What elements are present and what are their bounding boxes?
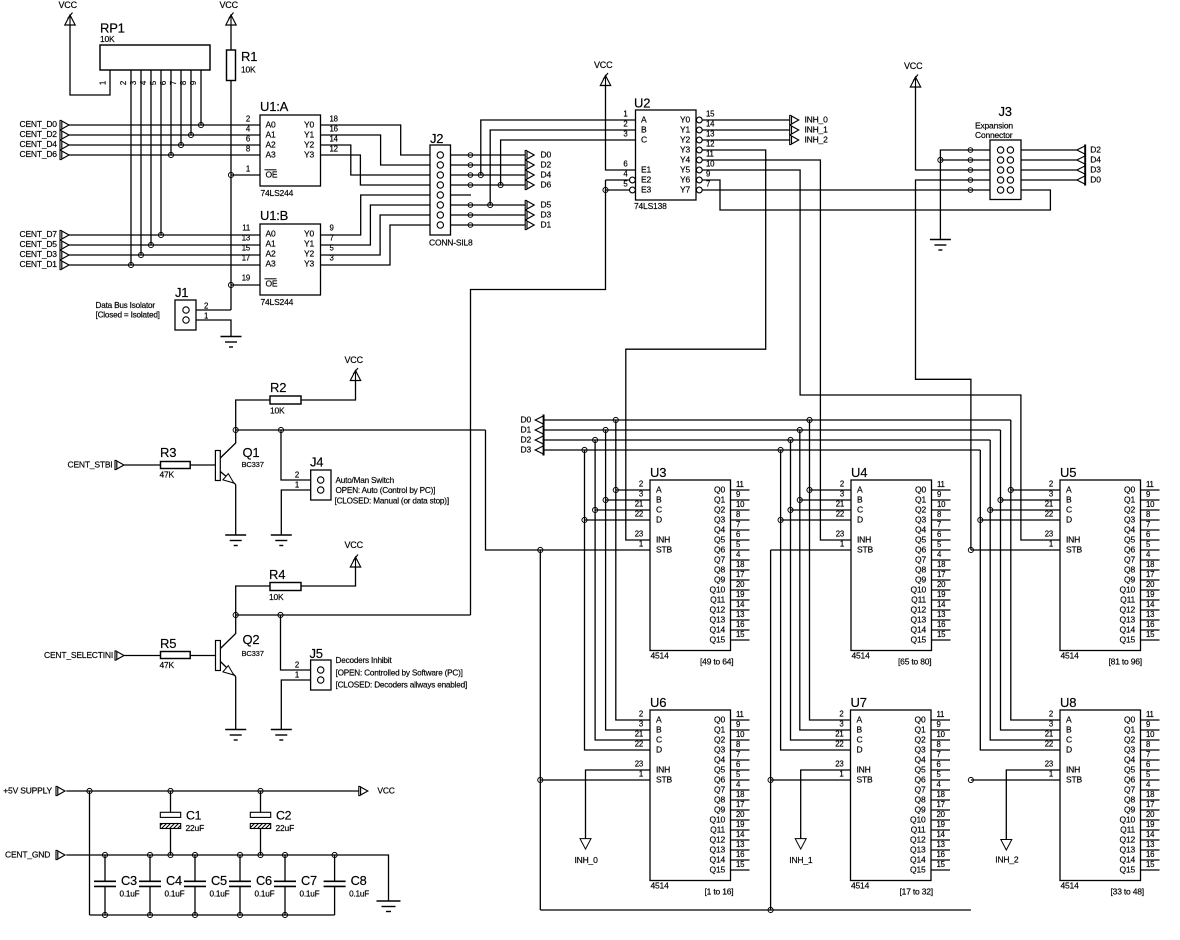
svg-text:Q10: Q10 xyxy=(1120,585,1136,595)
svg-text:Y1: Y1 xyxy=(304,239,314,249)
junction J3 gnd xyxy=(938,157,943,162)
svg-text:Q14: Q14 xyxy=(1120,855,1136,865)
pin mark J3 row 150 xyxy=(968,148,973,153)
decoder U4 (4514) xyxy=(836,465,951,667)
svg-text:14: 14 xyxy=(1146,830,1155,839)
svg-text:A0: A0 xyxy=(266,120,276,130)
svg-text:11: 11 xyxy=(736,710,744,719)
capacitor C6 (0.1uF) xyxy=(229,855,275,915)
junction STB x971 top xyxy=(968,547,973,552)
svg-text:D1: D1 xyxy=(521,425,532,435)
RP1 pin 7 label xyxy=(169,81,178,85)
junction E3 net xyxy=(603,187,608,192)
svg-text:[81 to 96]: [81 to 96] xyxy=(1109,657,1142,667)
svg-text:Q7: Q7 xyxy=(1124,555,1135,565)
port D3 xyxy=(525,210,551,220)
svg-text:Q13: Q13 xyxy=(911,615,927,625)
svg-text:CENT_D1: CENT_D1 xyxy=(20,259,58,269)
port CENT_D5 xyxy=(20,239,70,249)
svg-text:U2: U2 xyxy=(634,96,650,111)
junction D3/U5 xyxy=(978,517,983,522)
junction STB/U6 xyxy=(538,777,543,782)
svg-text:B: B xyxy=(656,495,662,505)
wire CENT_STBI to R3 xyxy=(124,464,160,466)
wire D0 U3 pin xyxy=(616,489,650,491)
svg-text:R2: R2 xyxy=(270,380,286,395)
svg-text:Q12: Q12 xyxy=(710,605,726,615)
port D1 (bus) xyxy=(521,425,545,436)
svg-text:20: 20 xyxy=(1146,580,1155,589)
junction bottom rail/C5 xyxy=(192,912,197,917)
svg-text:11: 11 xyxy=(706,150,714,159)
svg-text:3: 3 xyxy=(840,490,844,499)
svg-text:2: 2 xyxy=(204,302,208,311)
wire U2 E2-E3 tie xyxy=(605,180,607,190)
svg-text:D4: D4 xyxy=(541,170,552,180)
wire U2 Y0 xyxy=(702,119,789,121)
svg-text:Q5: Q5 xyxy=(714,535,725,545)
svg-text:22uF: 22uF xyxy=(186,823,205,833)
svg-text:19: 19 xyxy=(1146,820,1154,829)
svg-text:Q7: Q7 xyxy=(915,785,926,795)
wire RP1 pin 7 xyxy=(180,70,182,145)
wire +5V row xyxy=(66,790,359,792)
svg-text:3: 3 xyxy=(1049,490,1053,499)
wire RP1 pin 6 xyxy=(170,70,172,155)
wire STB net (Q1 to U3) xyxy=(486,430,651,550)
svg-text:VCC: VCC xyxy=(220,0,239,10)
junction CENT_D5/RP1 xyxy=(148,242,153,247)
decoder U7 (4514) xyxy=(835,695,950,897)
wire J3 gnd net xyxy=(940,150,990,240)
svg-text:E3: E3 xyxy=(641,185,651,195)
wire D2 bus row xyxy=(544,439,990,441)
svg-text:C7: C7 xyxy=(301,873,317,888)
svg-text:9: 9 xyxy=(1146,720,1150,729)
svg-text:1: 1 xyxy=(623,110,627,119)
port D2 (J3) xyxy=(1077,145,1101,156)
power flag VCC (above J3) xyxy=(904,61,923,87)
svg-text:VCC: VCC xyxy=(594,60,613,70)
RP1 pin 2 label xyxy=(119,81,128,85)
port D5 xyxy=(525,200,551,210)
junction CENT_D2/RP1 xyxy=(188,132,193,137)
svg-text:VCC: VCC xyxy=(377,785,394,795)
svg-text:0.1uF: 0.1uF xyxy=(120,890,140,899)
svg-text:10: 10 xyxy=(937,730,946,739)
svg-text:Q7: Q7 xyxy=(714,555,725,565)
svg-text:STB: STB xyxy=(857,545,873,555)
wire J3 to port D3 xyxy=(1021,169,1077,171)
wire CENT_D6 xyxy=(69,154,260,156)
svg-text:1: 1 xyxy=(639,770,643,779)
svg-text:R5: R5 xyxy=(160,636,176,651)
junction D3 x584 xyxy=(582,447,587,452)
svg-text:8: 8 xyxy=(1146,740,1150,749)
svg-text:D2: D2 xyxy=(1090,145,1101,155)
svg-text:1: 1 xyxy=(204,312,208,321)
svg-text:B: B xyxy=(1066,495,1072,505)
junction GND row/C8 xyxy=(332,852,337,857)
svg-text:6: 6 xyxy=(937,760,941,769)
svg-text:C: C xyxy=(1066,505,1072,515)
svg-text:B: B xyxy=(1066,725,1072,735)
svg-text:A3: A3 xyxy=(266,259,276,269)
port D6 xyxy=(525,180,551,190)
svg-text:VCC: VCC xyxy=(345,355,364,365)
svg-text:2: 2 xyxy=(623,120,627,129)
wire D0 U4 pin xyxy=(810,489,852,491)
port CENT_STBI xyxy=(68,459,125,469)
svg-text:INH_0: INH_0 xyxy=(805,115,829,125)
wire STB x770 up xyxy=(770,550,772,910)
capacitor C2 (22uF) xyxy=(250,791,294,855)
port CENT_D2 xyxy=(20,129,70,139)
svg-text:4514: 4514 xyxy=(851,881,870,891)
wire U2 Y2 xyxy=(702,139,789,141)
resistor pack RP1 xyxy=(100,21,210,71)
svg-text:INH: INH xyxy=(857,765,871,775)
wire D1 U4 pin xyxy=(800,499,851,501)
junction Q2 collector xyxy=(233,612,238,617)
svg-text:21: 21 xyxy=(635,730,643,739)
svg-text:21: 21 xyxy=(635,500,643,509)
svg-text:19: 19 xyxy=(1146,590,1154,599)
port D3 (bus) xyxy=(521,445,545,456)
svg-text:7: 7 xyxy=(736,520,740,529)
svg-text:Q6: Q6 xyxy=(915,545,926,555)
wire RP1 pin 5 xyxy=(160,70,162,235)
resistor R1 xyxy=(227,49,258,81)
svg-text:Q6: Q6 xyxy=(915,775,926,785)
svg-text:1: 1 xyxy=(295,481,299,490)
svg-text:2: 2 xyxy=(639,480,643,489)
svg-text:CENT_SELECTINI: CENT_SELECTINI xyxy=(44,650,113,660)
svg-text:Q15: Q15 xyxy=(710,635,726,645)
junction D0/U4 xyxy=(807,487,812,492)
svg-text:0.1uF: 0.1uF xyxy=(349,890,369,899)
svg-text:R4: R4 xyxy=(269,567,285,582)
svg-text:Q6: Q6 xyxy=(1124,545,1135,555)
svg-text:Y2: Y2 xyxy=(304,249,314,259)
svg-text:3: 3 xyxy=(639,490,643,499)
svg-text:11: 11 xyxy=(937,710,945,719)
pin mark J2 D6 xyxy=(468,183,473,188)
svg-text:7: 7 xyxy=(937,750,941,759)
svg-text:Q1: Q1 xyxy=(915,495,926,505)
svg-text:Y7: Y7 xyxy=(680,185,690,195)
wire U1:A Y1 to J2 pin2 xyxy=(321,135,431,165)
svg-text:[CLOSED: Decoders allways enab: [CLOSED: Decoders allways enabled] xyxy=(336,681,468,690)
svg-text:Q8: Q8 xyxy=(915,565,926,575)
svg-text:U3: U3 xyxy=(650,465,666,480)
svg-text:INH_2: INH_2 xyxy=(995,854,1019,864)
svg-text:STB: STB xyxy=(1066,775,1082,785)
ground (J1) xyxy=(221,337,242,348)
svg-text:7: 7 xyxy=(1146,520,1150,529)
svg-text:13: 13 xyxy=(736,610,744,619)
pin mark J3 row 180 xyxy=(968,178,973,183)
svg-text:6: 6 xyxy=(937,530,941,539)
junction D1 x799 xyxy=(797,427,802,432)
svg-text:B: B xyxy=(641,125,647,135)
wire U2 Y7 to J3 xyxy=(702,189,990,191)
svg-text:12: 12 xyxy=(706,140,714,149)
svg-text:J4: J4 xyxy=(310,455,323,470)
wire J2 to port D3 xyxy=(451,214,526,216)
transistor Q1 (BC337) xyxy=(215,430,263,535)
svg-text:Y2: Y2 xyxy=(680,135,690,145)
svg-text:Q4: Q4 xyxy=(714,525,725,535)
svg-text:Q3: Q3 xyxy=(915,745,926,755)
wire D6 to U2 C xyxy=(501,140,636,185)
svg-text:Y3: Y3 xyxy=(304,259,314,269)
svg-text:Y5: Y5 xyxy=(680,165,690,175)
wire J2 to port D0 xyxy=(451,154,526,156)
svg-text:Q1: Q1 xyxy=(714,495,725,505)
svg-text:Q4: Q4 xyxy=(1124,525,1135,535)
wire J3 pin4 left (STB net) xyxy=(916,180,991,550)
wire J1 pin1 to ground xyxy=(196,320,231,337)
junction J4 pin2 tap xyxy=(278,427,283,432)
wire U6 INH xyxy=(586,770,651,839)
wire U2 E2 xyxy=(606,179,630,181)
svg-text:6: 6 xyxy=(246,135,250,144)
pin mark J2 D4 xyxy=(468,173,473,178)
wire D2 U3/U6 vertical xyxy=(595,440,650,740)
decoder U2 (74LS138) xyxy=(623,96,715,212)
svg-text:8: 8 xyxy=(246,145,250,154)
wire J5 pin1 xyxy=(281,680,310,730)
svg-text:Q0: Q0 xyxy=(714,715,725,725)
svg-text:C8: C8 xyxy=(351,873,367,888)
svg-text:2: 2 xyxy=(840,480,844,489)
junction CENT_D7/RP1 xyxy=(158,232,163,237)
wire R1 to OE/J1 (vertical) xyxy=(230,81,232,311)
svg-text:A2: A2 xyxy=(266,249,276,259)
svg-text:Q14: Q14 xyxy=(710,855,726,865)
svg-text:6: 6 xyxy=(736,760,740,769)
svg-text:D0: D0 xyxy=(541,150,552,160)
wire VCC to R1 xyxy=(230,25,232,50)
svg-text:15: 15 xyxy=(937,630,946,639)
svg-text:Q12: Q12 xyxy=(1120,835,1136,845)
svg-text:D4: D4 xyxy=(1090,155,1101,165)
wire CENT_GND row xyxy=(66,855,388,901)
wire U1:A Y0 to J2 pin1 xyxy=(321,125,431,155)
svg-text:INH: INH xyxy=(656,765,670,775)
junction D3/U4 xyxy=(778,517,783,522)
junction CENT_D1/RP1 xyxy=(128,262,133,267)
wire J4 pin2 xyxy=(281,430,311,480)
svg-text:[Closed = Isolated]: [Closed = Isolated] xyxy=(96,310,160,319)
wire bottom rail xyxy=(90,914,335,916)
svg-text:U1:A: U1:A xyxy=(260,99,289,114)
port INH_2 xyxy=(995,840,1019,865)
capacitor C3 (0.1uF) xyxy=(94,855,140,915)
svg-text:J2: J2 xyxy=(430,131,443,146)
svg-text:D: D xyxy=(1066,745,1072,755)
svg-text:16: 16 xyxy=(937,850,945,859)
svg-text:Q12: Q12 xyxy=(1120,605,1136,615)
junction GND row/C5 xyxy=(192,852,197,857)
wire U1:B Y2 to J2 pin7 xyxy=(321,215,431,255)
port D0 (bus) xyxy=(521,415,545,426)
svg-text:Q12: Q12 xyxy=(910,835,926,845)
svg-text:A2: A2 xyxy=(266,140,276,150)
decoder U6 (4514) xyxy=(635,695,750,897)
svg-text:16: 16 xyxy=(736,850,744,859)
junction STB/x540 xyxy=(538,547,543,552)
svg-text:CENT_GND: CENT_GND xyxy=(5,849,50,859)
ground (CENT_GND) xyxy=(377,901,401,912)
svg-text:A3: A3 xyxy=(266,150,276,160)
wire U1:B Y3 to J2 pin8 xyxy=(321,225,431,265)
svg-text:4514: 4514 xyxy=(651,881,670,891)
svg-text:19: 19 xyxy=(937,820,945,829)
svg-text:21: 21 xyxy=(835,730,843,739)
svg-text:9: 9 xyxy=(736,720,740,729)
svg-text:Y4: Y4 xyxy=(680,155,690,165)
svg-text:2: 2 xyxy=(119,81,128,85)
svg-text:Q10: Q10 xyxy=(1120,815,1136,825)
wire U1:B Y1 to J2 pin6 xyxy=(321,205,431,245)
svg-text:8: 8 xyxy=(937,510,941,519)
junction R1 net / U1:B OE xyxy=(228,282,233,287)
svg-text:INH: INH xyxy=(857,535,871,545)
svg-text:Q8: Q8 xyxy=(1124,795,1135,805)
wire STB to U6 xyxy=(540,779,650,781)
pin mark J3 row 190 xyxy=(968,188,973,193)
ground (J5) xyxy=(271,730,292,741)
port CENT_D4 xyxy=(20,139,70,149)
svg-text:3: 3 xyxy=(639,720,643,729)
svg-text:13: 13 xyxy=(937,840,945,849)
svg-text:15: 15 xyxy=(736,630,745,639)
svg-text:8: 8 xyxy=(937,740,941,749)
wire VCC to U2 E1 xyxy=(606,86,636,171)
port INH_2 xyxy=(790,135,828,145)
junction GND row/C6 xyxy=(237,852,242,857)
wire R2 to collector xyxy=(236,400,270,430)
svg-text:Q8: Q8 xyxy=(1124,565,1135,575)
port CENT_D6 xyxy=(20,149,70,159)
junction CENT_D3/RP1 xyxy=(138,252,143,257)
svg-text:[33 to 48]: [33 to 48] xyxy=(1111,887,1144,897)
wire CENT_D0 xyxy=(69,124,260,126)
svg-text:STB: STB xyxy=(1066,545,1082,555)
svg-text:INH_0: INH_0 xyxy=(575,855,599,865)
svg-text:6: 6 xyxy=(623,160,627,169)
svg-text:15: 15 xyxy=(242,244,251,253)
wire D3 U3 pin xyxy=(585,519,651,521)
svg-text:E2: E2 xyxy=(641,175,651,185)
svg-text:Q11: Q11 xyxy=(911,825,926,835)
svg-text:22: 22 xyxy=(635,510,643,519)
wire J1 pin2 xyxy=(196,309,231,311)
svg-text:Q14: Q14 xyxy=(910,855,926,865)
svg-text:Q2: Q2 xyxy=(714,735,725,745)
svg-text:23: 23 xyxy=(1045,530,1053,539)
svg-text:10: 10 xyxy=(706,160,715,169)
junction STB/U7 xyxy=(768,777,773,782)
svg-text:Q0: Q0 xyxy=(1124,485,1135,495)
svg-text:13: 13 xyxy=(706,130,714,139)
svg-text:Y3: Y3 xyxy=(304,150,314,160)
wire D1 U5 pin xyxy=(1001,499,1061,501)
port INH_0 xyxy=(575,839,599,865)
svg-text:14: 14 xyxy=(330,135,339,144)
svg-text:20: 20 xyxy=(736,810,745,819)
svg-text:Q6: Q6 xyxy=(1124,775,1135,785)
svg-text:8: 8 xyxy=(179,81,188,85)
svg-text:19: 19 xyxy=(937,590,945,599)
svg-text:Q15: Q15 xyxy=(1120,635,1136,645)
svg-text:Q13: Q13 xyxy=(1120,845,1136,855)
port INH_0 xyxy=(790,115,828,125)
svg-text:CENT_D5: CENT_D5 xyxy=(20,239,58,249)
svg-text:U1:B: U1:B xyxy=(260,208,288,223)
svg-text:Y2: Y2 xyxy=(304,140,314,150)
svg-text:14: 14 xyxy=(736,600,745,609)
svg-text:C3: C3 xyxy=(121,873,137,888)
wire J3 to port D4 xyxy=(1021,159,1077,161)
wire D0 U4/U7 vertical xyxy=(810,420,851,720)
svg-text:D1: D1 xyxy=(541,220,552,230)
wire J4 pin1 xyxy=(281,490,310,535)
svg-text:Q15: Q15 xyxy=(910,865,926,875)
svg-text:B: B xyxy=(857,495,863,505)
svg-text:0.1uF: 0.1uF xyxy=(165,890,185,899)
svg-text:Q0: Q0 xyxy=(714,485,725,495)
resistor R4 xyxy=(269,567,301,602)
RP1 pin 5 label xyxy=(149,80,158,85)
svg-text:15: 15 xyxy=(1146,630,1155,639)
junction GND row/C4 xyxy=(147,852,152,857)
junction bottom rail/C6 xyxy=(237,912,242,917)
svg-text:8: 8 xyxy=(736,510,740,519)
svg-text:A: A xyxy=(656,485,662,495)
svg-text:18: 18 xyxy=(1146,560,1154,569)
svg-text:3: 3 xyxy=(129,81,138,85)
svg-text:C1: C1 xyxy=(186,808,202,822)
port CENT_D3 xyxy=(20,249,70,259)
svg-text:Q9: Q9 xyxy=(714,805,725,815)
svg-text:21: 21 xyxy=(836,500,844,509)
wire RP1 pin 3 xyxy=(140,70,142,255)
svg-text:17: 17 xyxy=(736,570,744,579)
junction D2 x790 xyxy=(788,437,793,442)
svg-text:4: 4 xyxy=(139,80,148,85)
svg-text:D: D xyxy=(857,515,863,525)
wire CENT_SELECTINI to R5 xyxy=(124,655,160,657)
svg-text:4514: 4514 xyxy=(1061,651,1080,661)
wire U2 E3 xyxy=(606,189,630,191)
svg-text:2: 2 xyxy=(839,710,843,719)
svg-text:16: 16 xyxy=(330,125,338,134)
capacitor C1 (22uF) xyxy=(160,791,204,855)
svg-text:VCC: VCC xyxy=(59,0,78,10)
wire CENT_D3 xyxy=(69,254,260,256)
svg-text:[17 to 32]: [17 to 32] xyxy=(900,887,933,897)
junction D0/U5 xyxy=(1008,487,1013,492)
wire left rail xyxy=(89,791,91,915)
svg-text:11: 11 xyxy=(1146,710,1154,719)
svg-text:Q3: Q3 xyxy=(714,745,725,755)
junction D2/U4 xyxy=(788,507,793,512)
svg-text:Q3: Q3 xyxy=(1124,745,1135,755)
wire D3 U4 pin xyxy=(781,519,851,521)
